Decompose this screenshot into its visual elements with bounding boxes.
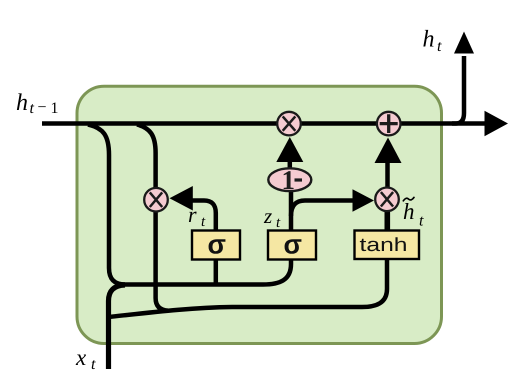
svg-text:t: t [419, 213, 424, 230]
svg-text:h: h [403, 199, 415, 224]
svg-text:t: t [30, 100, 35, 117]
svg-text:r: r [188, 202, 197, 227]
svg-text:h: h [16, 90, 28, 116]
svg-text:z: z [263, 204, 272, 228]
svg-text:t: t [91, 356, 96, 373]
svg-text:t: t [437, 38, 442, 55]
svg-text:1: 1 [51, 100, 59, 117]
svg-text:tanh: tanh [360, 235, 408, 256]
svg-text:σ: σ [284, 230, 302, 260]
svg-text:σ: σ [208, 230, 226, 260]
svg-text:x: x [75, 345, 87, 370]
svg-text:−: − [38, 99, 47, 116]
svg-text:h: h [423, 27, 435, 53]
svg-text:1: 1 [282, 165, 296, 195]
